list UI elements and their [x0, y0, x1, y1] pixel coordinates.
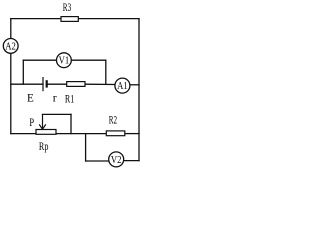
svg-text:R3: R3	[63, 0, 71, 14]
rheostat Rp	[36, 130, 56, 135]
ammeter A1	[115, 78, 130, 93]
svg-text:P: P	[29, 115, 34, 129]
wire V1 loop right vertical	[105, 60, 107, 84]
wire top edge left of R3	[11, 18, 61, 20]
wire battery branch y=84	[11, 83, 43, 85]
resistor R1	[67, 82, 85, 87]
slider P wiper arrow	[39, 114, 46, 129]
svg-text:Rp: Rp	[39, 139, 49, 153]
wire R2 to right edge	[125, 133, 139, 135]
battery E short plate	[46, 80, 48, 87]
wire V2 loop bottom right of V2	[124, 160, 139, 162]
wire slider arm horizontal	[43, 113, 72, 115]
svg-text:r: r	[53, 91, 57, 105]
svg-text:A1: A1	[117, 81, 128, 92]
wire V1 loop top right of V1	[71, 59, 105, 61]
wire top edge right of R3	[78, 18, 139, 20]
resistor R2	[106, 131, 125, 136]
wire Rp branch left	[11, 133, 36, 135]
wire V1 loop left vertical	[22, 60, 24, 84]
voltmeter V2	[109, 152, 124, 167]
svg-text:V1: V1	[59, 56, 70, 67]
svg-text:V2: V2	[111, 155, 122, 166]
svg-text:R1: R1	[65, 91, 74, 105]
wire battery to R1	[47, 83, 67, 85]
wire V1 loop top left of V1	[23, 59, 56, 61]
ammeter A2	[3, 39, 18, 54]
wire slider arm right vertical	[70, 114, 72, 133]
wire V2 loop bottom left of V2	[86, 160, 109, 162]
svg-text:R2: R2	[109, 112, 117, 126]
wire A1 to right edge	[130, 84, 139, 86]
wire Rp box to R2	[56, 133, 106, 135]
resistor R3	[61, 17, 78, 22]
wire R1 to A1	[85, 83, 115, 85]
wire left edge	[10, 19, 12, 134]
battery E long plate	[42, 77, 44, 91]
wire right edge	[138, 19, 140, 161]
wire V2 loop left vertical	[85, 134, 87, 161]
svg-text:E: E	[27, 91, 34, 105]
svg-text:A2: A2	[5, 41, 16, 52]
voltmeter V1	[57, 53, 72, 68]
